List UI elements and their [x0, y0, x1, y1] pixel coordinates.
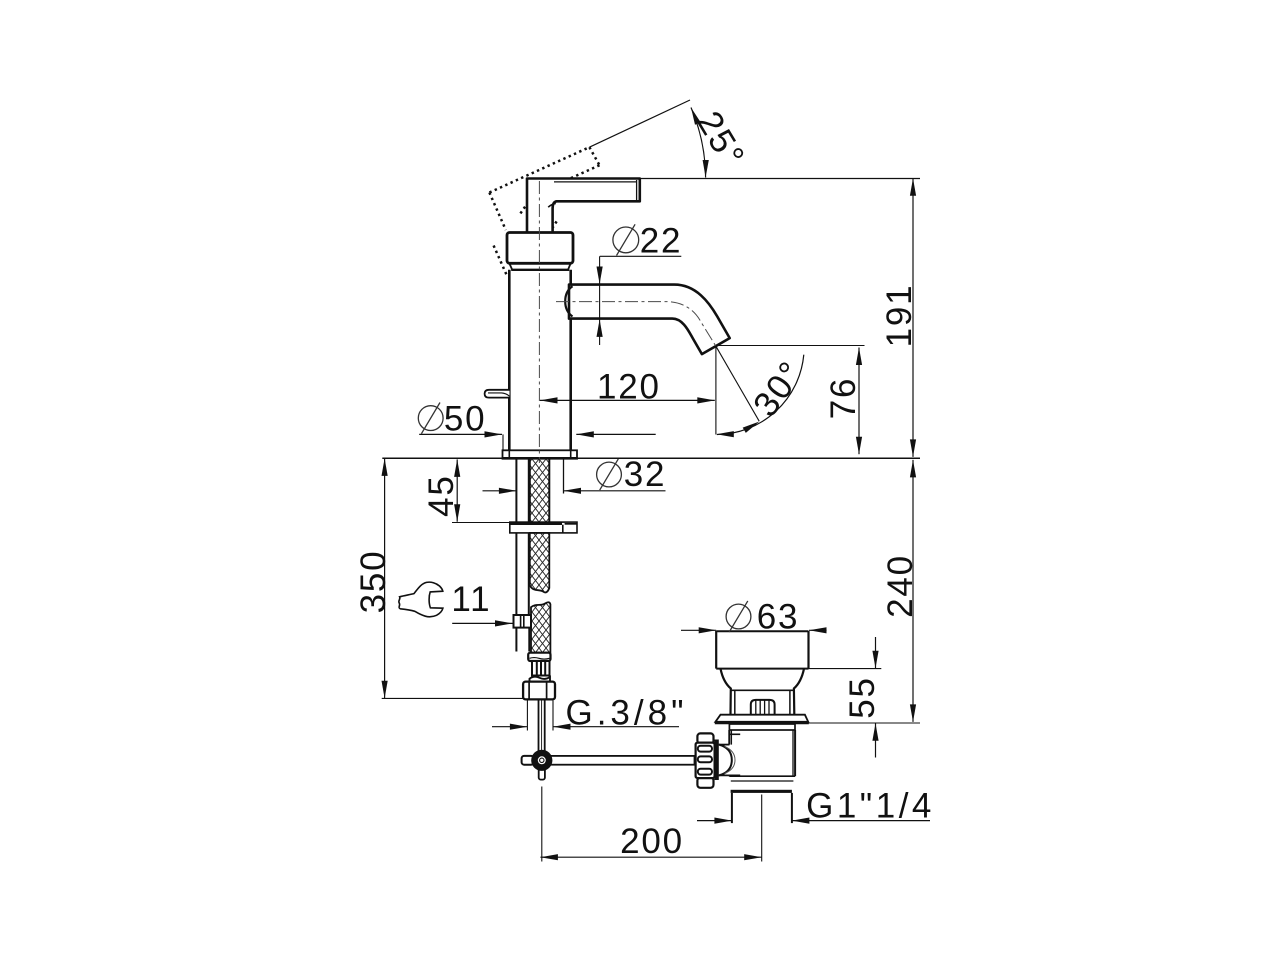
dim 25deg arc: [691, 108, 706, 178]
drain body tee notch: [729, 733, 740, 735]
svg-text:76: 76: [824, 377, 863, 420]
leader 11: [452, 622, 512, 624]
svg-text:55: 55: [843, 676, 882, 719]
centerline spout axis: [556, 302, 716, 347]
handle fillet tick: [548, 203, 556, 207]
dim dia63: [681, 629, 716, 631]
spout root cap arc: [565, 286, 572, 316]
11mm nipple: [514, 615, 532, 628]
dim 350: [384, 458, 386, 698]
faucet body left wall: [508, 270, 511, 451]
svg-text:350: 350: [354, 550, 393, 614]
threaded shank hatched: [530, 459, 550, 522]
neck seam: [511, 269, 569, 271]
wrench symbol: [399, 582, 443, 617]
drain body bottom heavy band: [731, 790, 792, 793]
clamp plate: [510, 522, 577, 533]
dim dia22: [600, 255, 682, 257]
hose lower hatched segment: [531, 602, 550, 652]
drain body walls: [728, 730, 730, 745]
phantom handle top edge (25 deg position): [489, 147, 589, 192]
pull rod left stub: [522, 756, 534, 765]
svg-text:50: 50: [444, 399, 487, 438]
drain funnel right: [794, 669, 804, 715]
dim 120: [540, 399, 715, 401]
svg-text:32: 32: [624, 455, 667, 494]
phantom fillet fragment: [551, 221, 557, 230]
G3/8 threaded tail: [538, 699, 540, 752]
phantom handle stem left edge: [489, 193, 505, 231]
rod lower stub: [539, 768, 545, 780]
ball joint: [531, 750, 552, 771]
drain body lower band: [729, 775, 795, 777]
dim dia50: [419, 433, 502, 435]
svg-text:22: 22: [640, 221, 683, 260]
side tab (temperature limiter): [485, 390, 510, 398]
dim G3/8: [526, 701, 528, 731]
drain flange: [715, 715, 808, 722]
faucet body right wall: [569, 270, 572, 451]
hose corrugated fitting: [532, 661, 550, 676]
drain cup top edge: [716, 630, 808, 632]
ring nut right face: [714, 740, 718, 781]
hose crimp collar: [528, 653, 550, 661]
dim 240: [912, 460, 914, 722]
phantom handle stem right edge fragment: [519, 202, 528, 215]
dim 191: [912, 178, 914, 457]
drain cup bottom: [716, 668, 808, 670]
knurled ring nut: [697, 733, 713, 743]
svg-text:G.3/8": G.3/8": [565, 694, 687, 733]
spout outline: [569, 285, 730, 355]
tailpipe G1 1/4: [731, 793, 733, 823]
funnel mid seam: [731, 689, 794, 691]
deck line left: [382, 457, 502, 459]
handle lever inner top line: [554, 181, 637, 183]
dim 76: [717, 345, 865, 347]
horizontal drain rod: [545, 756, 695, 765]
phantom handle bottom edge: [568, 165, 600, 179]
svg-text:120: 120: [597, 367, 661, 406]
svg-text:63: 63: [757, 598, 800, 637]
spout tip vertical extension: [715, 346, 717, 434]
svg-text:191: 191: [880, 284, 919, 348]
dim 200: [541, 787, 543, 862]
handle lever end inner line: [636, 180, 638, 200]
dim 30deg arc: [717, 355, 804, 435]
dim dia32: [483, 490, 517, 492]
water flow line 30deg: [716, 346, 759, 421]
svg-text:11: 11: [451, 580, 491, 619]
pull rod tube below nipple: [515, 628, 517, 652]
linkage housing: [719, 744, 730, 746]
svg-text:240: 240: [881, 554, 920, 618]
svg-text:45: 45: [422, 474, 461, 517]
drain funnel left: [721, 669, 731, 715]
deck line right: [577, 457, 920, 459]
hose end washer: [530, 677, 551, 682]
funnel inner walls: [734, 690, 736, 714]
hex nut G3/8: [523, 682, 555, 700]
dim 45: [456, 459, 458, 521]
centerline faucet body axis: [538, 181, 540, 463]
svg-text:G1"1/4: G1"1/4: [806, 787, 935, 826]
dim 25deg slant line: [589, 100, 690, 147]
svg-text:200: 200: [620, 822, 684, 861]
dim 55: [809, 668, 882, 670]
neck chamfer right: [568, 264, 570, 270]
neck chamfer left: [510, 264, 513, 270]
phantom cap edge fragment: [494, 246, 508, 277]
hose upper hatched segment: [530, 533, 550, 593]
handle lever and stem outline: [527, 179, 640, 233]
drain sub-lip: [729, 724, 795, 730]
pull rod tube left: [515, 459, 517, 615]
top reference line: [640, 178, 920, 180]
knurled set knob: [751, 700, 775, 715]
base flange: [503, 450, 578, 458]
drain cup walls: [715, 631, 717, 669]
phantom handle end face: [589, 147, 599, 165]
dim G1 1/4: [697, 820, 732, 822]
cartridge cap: [507, 233, 573, 264]
